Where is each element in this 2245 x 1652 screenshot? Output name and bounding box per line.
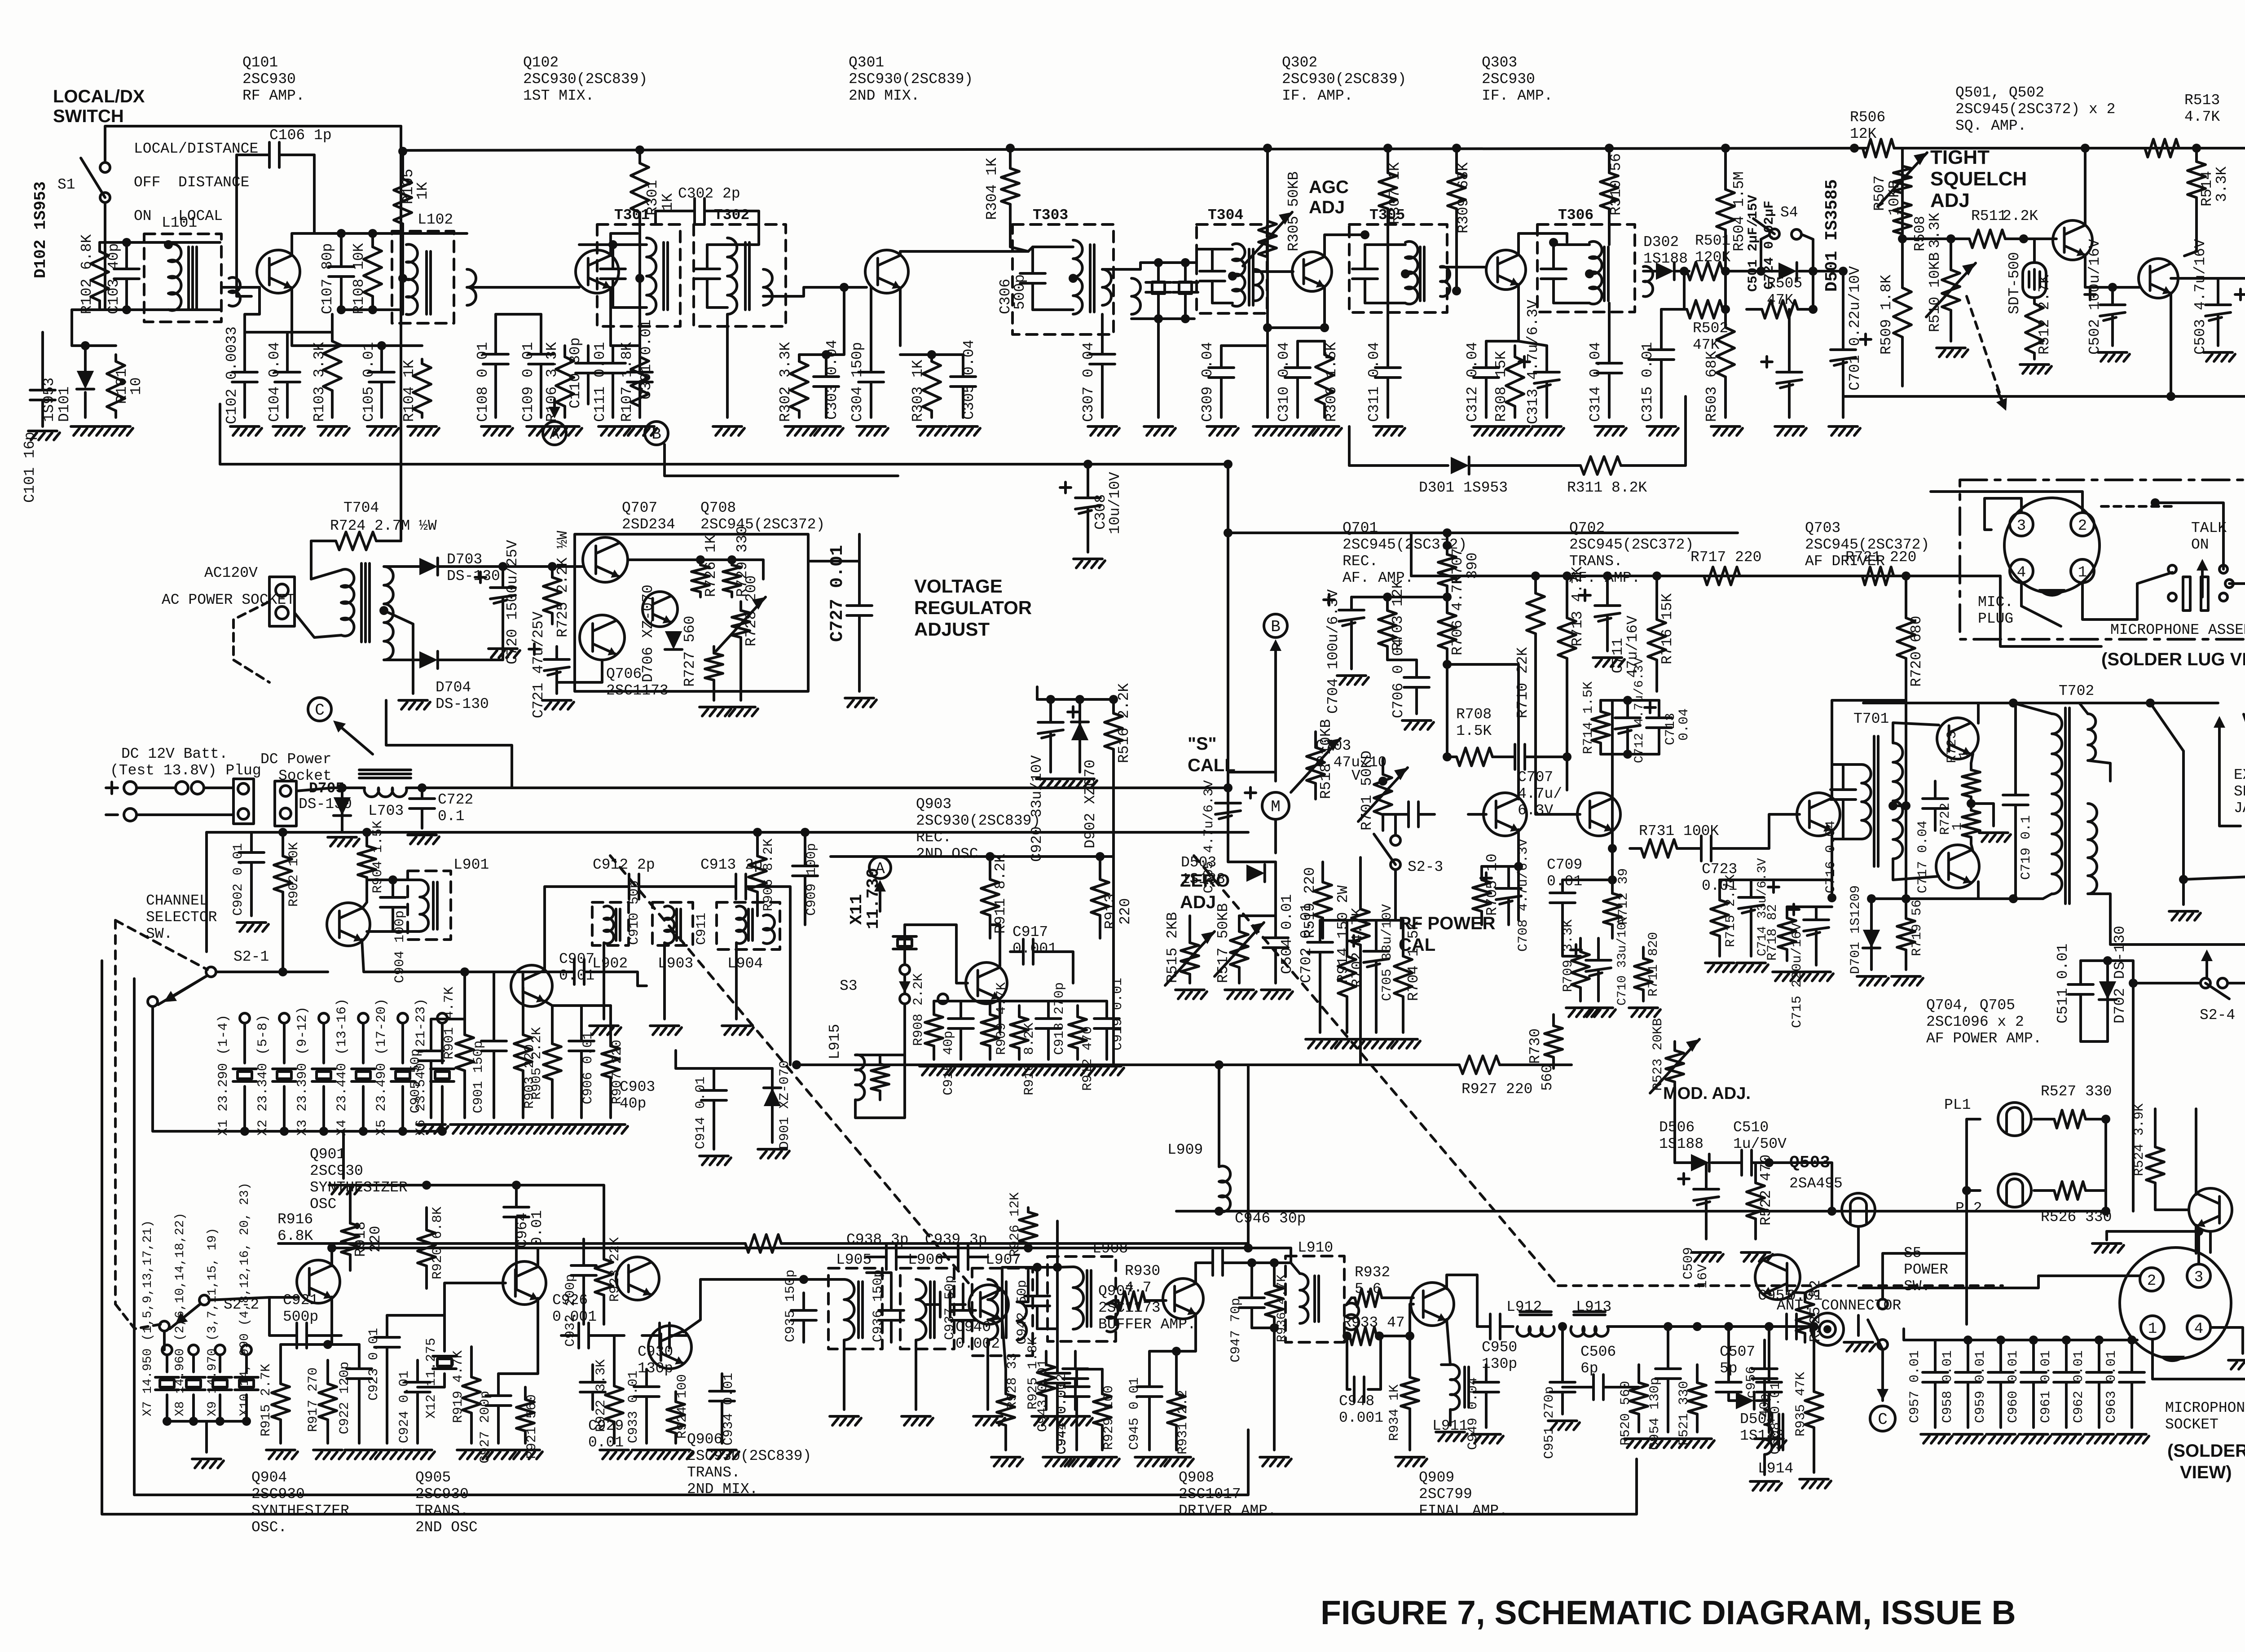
resistor R922 (613, 1365, 616, 1386)
wire T304 bottom (1212, 302, 1233, 304)
capacitor C507 (1727, 1327, 1730, 1382)
junction l912 l913 (1558, 1322, 1567, 1331)
svg-text:0.001: 0.001 (1339, 1410, 1383, 1426)
wire q904 c up (330, 1248, 333, 1266)
ground L905 (830, 1415, 858, 1418)
resistor R930 (1114, 1299, 1118, 1302)
svg-text:R918: R918 (352, 1221, 369, 1257)
svg-text:D302: D302 (1643, 234, 1679, 250)
ground R718 (1773, 971, 1801, 973)
svg-text:2SC930(2SC839): 2SC930(2SC839) (687, 1448, 811, 1464)
wire c505 bot (1228, 844, 1276, 862)
ground R935 (1800, 1478, 1828, 1481)
capacitor C710 (1597, 938, 1600, 960)
wire c917 right (1051, 952, 1073, 983)
svg-text:2ND OSC: 2ND OSC (415, 1519, 478, 1536)
transistor Q901 (327, 903, 370, 946)
svg-text:C917: C917 (1012, 924, 1048, 940)
svg-text:C716 0.04: C716 0.04 (1823, 821, 1839, 893)
capacitor C510 (1729, 1161, 1742, 1164)
wire mod adj col (1673, 1091, 1676, 1163)
svg-text:R509 1.8K: R509 1.8K (1878, 275, 1895, 355)
wire top rail drop to bus (400, 126, 402, 151)
wire r914 bot (1359, 961, 1362, 1065)
svg-text:2.2K: 2.2K (2003, 208, 2038, 224)
svg-text:R511: R511 (1971, 208, 2007, 224)
resistor R923 (603, 1230, 605, 1259)
diode D705 (334, 797, 351, 816)
ground D705 (328, 836, 357, 839)
svg-text:R714 1.5K: R714 1.5K (1581, 681, 1596, 754)
wire synth left drop (205, 832, 208, 952)
svg-text:C951 270p: C951 270p (1542, 1386, 1557, 1459)
transformer T303 core (1089, 245, 1092, 312)
svg-text:C312 0.04: C312 0.04 (1464, 342, 1481, 422)
junction det d (1809, 267, 1818, 276)
wire t704 pri top (311, 570, 341, 579)
mic socket pin 1 (2141, 1316, 2164, 1339)
capacitor C303 (825, 355, 828, 377)
wire c914 row2 (674, 1050, 677, 1068)
svg-text:R934 1K: R934 1K (1387, 1384, 1402, 1441)
capacitor C915 (960, 1001, 962, 1019)
wire x11 leads (903, 925, 906, 963)
diode D101 (77, 371, 94, 389)
svg-text:C717 0.04: C717 0.04 (1915, 821, 1931, 893)
svg-text:ON: ON (2191, 536, 2209, 553)
diode D302 (1656, 263, 1674, 280)
ground C960 (2019, 1433, 2048, 1436)
svg-text:R502: R502 (1693, 320, 1728, 337)
diode D704 (419, 651, 438, 668)
svg-text:SELECTOR: SELECTOR (146, 909, 217, 926)
junction T306 tap (1585, 269, 1594, 278)
svg-text:R924 100: R924 100 (675, 1374, 690, 1439)
resistor R936 (1273, 1263, 1276, 1286)
wire squelch bottom row (1843, 395, 2245, 398)
inductor L901 core (432, 882, 435, 929)
transformer T704 primary (341, 569, 354, 636)
wire R309 down (1455, 233, 1458, 291)
junction f2 (1181, 258, 1190, 267)
junction R504 bus (1721, 144, 1730, 153)
svg-text:SQ. AMP.: SQ. AMP. (1955, 118, 2026, 134)
junction bot rail (2009, 894, 2018, 903)
transistor Q902 osc (966, 962, 1007, 1004)
transistor Q905 (503, 1261, 546, 1305)
svg-text:CAL: CAL (1399, 935, 1435, 955)
svg-text:Q909: Q909 (1419, 1469, 1454, 1486)
svg-text:R720 680: R720 680 (1908, 616, 1925, 687)
svg-text:T306: T306 (1558, 207, 1594, 224)
svg-text:C701 0.22u/10V: C701 0.22u/10V (1847, 266, 1863, 391)
resistor R508 (1901, 198, 1904, 202)
ground C914 (700, 1155, 728, 1157)
resistor R926 (1027, 1208, 1030, 1212)
wire Q303 emitter (1517, 285, 1520, 341)
wire c719 top (2014, 703, 2017, 772)
wire c712 row bot (1601, 753, 1659, 756)
wire Q502 emitter to row (2170, 391, 2172, 396)
svg-text:0.01: 0.01 (1547, 873, 1582, 890)
inductor L905 core (857, 1282, 860, 1338)
svg-text:SQUELCH: SQUELCH (1930, 168, 2027, 190)
wire tx long line2 (1028, 1247, 1248, 1249)
svg-text:S2-1: S2-1 (233, 949, 269, 965)
svg-text:C502 100u/16V: C502 100u/16V (2087, 239, 2103, 355)
wire d901 leads (771, 1068, 774, 1142)
wire T306 top (1554, 243, 1589, 246)
resistor R501 (1684, 270, 1687, 272)
wire tank link (660, 885, 714, 888)
wire r926 bot (1017, 1270, 1028, 1302)
node C left (308, 698, 331, 721)
wire LOCAL node (72, 344, 116, 347)
wire t704 sec bot (384, 659, 420, 661)
resistor R730 (1552, 1015, 1555, 1026)
wire s21 dash link (115, 920, 207, 970)
svg-text:C914 0.01: C914 0.01 (693, 1076, 709, 1149)
transistor Q302 (1292, 252, 1332, 291)
capacitor C904 (392, 880, 394, 897)
svg-text:C910 50p: C910 50p (627, 880, 642, 945)
wire Q101 emitter (291, 288, 293, 346)
junction lamp feed (1962, 1186, 1971, 1195)
capacitor C933 (645, 1369, 648, 1387)
junction r502 b (1721, 305, 1730, 314)
svg-text:130p: 130p (1482, 1356, 1517, 1372)
junction mid rail (422, 1181, 431, 1190)
wire comb rail (934, 1000, 1107, 1002)
junction T305 top (1360, 230, 1369, 239)
svg-text:EXT.: EXT. (2234, 767, 2245, 783)
svg-text:RF POWER: RF POWER (1399, 914, 1496, 933)
ground R711 (1629, 1006, 1658, 1009)
wire T306 through down (1608, 303, 1611, 332)
arrow talk (2201, 571, 2204, 597)
junction c954 (1664, 1322, 1673, 1331)
svg-text:IF. AMP.: IF. AMP. (1282, 88, 1353, 104)
capacitor C918 (1047, 1001, 1050, 1019)
AC power socket (269, 577, 295, 626)
wire s21 to q901 base (216, 971, 328, 973)
wire mic2 wire (1859, 1276, 2140, 1288)
junction c508 (1765, 1322, 1774, 1331)
transformer T701 core (1873, 736, 1875, 866)
svg-text:R929 100: R929 100 (1101, 1385, 1117, 1450)
junction bypass 1 (1963, 1336, 1972, 1344)
transistor Q907 (969, 1285, 1008, 1324)
resistor R522 (1754, 1163, 1757, 1183)
transformer T306 secondary (1643, 267, 1653, 297)
wire q703 emitter (1831, 830, 1833, 898)
fuse (176, 782, 188, 794)
wire mech link2 (1558, 1284, 2003, 1287)
resistor R108 (371, 233, 374, 247)
junction mic a (2151, 498, 2160, 507)
crystal X2 terminal (279, 1013, 289, 1023)
transformer T704 secondary (384, 567, 393, 660)
junction r902t (278, 828, 287, 837)
capacitor C934 (721, 1374, 723, 1391)
resistor R708 (1447, 756, 1457, 758)
ground C101 (28, 430, 57, 432)
wire c506 r520 (1625, 1386, 1639, 1388)
svg-text:C923 0.01: C923 0.01 (366, 1328, 382, 1401)
wire Q302 e row (1268, 326, 1325, 329)
wire C106 left leg (237, 155, 251, 296)
svg-text:R519 220: R519 220 (1302, 867, 1318, 938)
wire tx rail (797, 1063, 1455, 1066)
crystal X8 terminal (189, 1345, 198, 1355)
wire Q501 collector (2084, 148, 2087, 225)
svg-text:1: 1 (1950, 822, 1965, 830)
transistor Q906 sym (648, 1326, 691, 1369)
svg-text:10: 10 (128, 377, 145, 395)
crystal X9 (208, 1376, 232, 1379)
resistor R724 (311, 540, 336, 542)
wire c511 d702 bot (2081, 1040, 2108, 1043)
ground D901 (758, 1148, 787, 1151)
ground C105 (367, 425, 396, 428)
ground C945 (1135, 1456, 1164, 1459)
wire meter lamp (1805, 1226, 1858, 1293)
mic socket pin 2 (2140, 1268, 2163, 1291)
diode D702 (2099, 981, 2116, 1000)
resistor R909 (989, 1001, 991, 1015)
resistor R310 (1608, 148, 1611, 173)
wire det down2 (1724, 271, 1727, 309)
svg-text:0.01: 0.01 (588, 1434, 624, 1451)
wire X2 lead (283, 1023, 286, 1063)
svg-text:C501 2μF/15V: C501 2μF/15V (1746, 195, 1761, 292)
capacitor C951 (1561, 1327, 1564, 1382)
junction X10 (242, 1417, 251, 1426)
junction af feed (1224, 528, 1233, 537)
resistor R715 (1718, 880, 1721, 900)
wire T306 bot (1554, 302, 1589, 304)
wire d506 c510 (1712, 1161, 1729, 1164)
capacitor C721 (555, 646, 558, 659)
svg-text:C: C (1878, 1410, 1888, 1429)
pilot lamp PL2 (1998, 1174, 2031, 1207)
wire c942 bot (1037, 1327, 1057, 1330)
switch S2-4 (2201, 978, 2210, 988)
resistor R527 (2034, 1118, 2054, 1120)
mic socket pin 4 (2187, 1316, 2210, 1339)
capacitor C704 (1350, 597, 1353, 610)
ground R107 (625, 425, 654, 428)
wire R105 to L102 (401, 245, 404, 314)
svg-text:V: V (1351, 768, 1360, 784)
ground C906 (567, 1123, 596, 1126)
microphone plug circle (2004, 498, 2100, 593)
wire agc feed (1266, 148, 1269, 206)
svg-text:2SC930: 2SC930 (415, 1486, 469, 1503)
svg-text:10u/10V: 10u/10V (1107, 472, 1123, 534)
ground R936 (1260, 1456, 1289, 1459)
resistor R101 (114, 355, 117, 361)
resistor R102 (98, 242, 101, 251)
ground R905 (538, 1123, 567, 1126)
svg-text:C934 0.01: C934 0.01 (721, 1373, 736, 1445)
svg-text:DS-130: DS-130 (447, 568, 500, 584)
crystal X10 terminal (242, 1345, 251, 1355)
switch S4 (1770, 229, 1779, 239)
wire C107 R108 bottom (341, 308, 403, 311)
wire lamps feed (1967, 1119, 1980, 1191)
wire mic4 wire (2210, 1327, 2243, 1353)
inductor L102 secondary (467, 269, 476, 305)
svg-text:C911: C911 (694, 913, 709, 945)
ground R909 (976, 1065, 1004, 1068)
svg-text:1.5K: 1.5K (1456, 723, 1492, 739)
svg-text:3: 3 (2194, 1269, 2203, 1286)
wire q503 c (2195, 1225, 2197, 1253)
inductor L906 core (929, 1282, 932, 1338)
wire T302 sec to Q301 (763, 287, 867, 296)
inductor L101 secondary loop (229, 277, 240, 306)
wire c903 to q902 (611, 972, 647, 986)
junction bypass 3 (2029, 1336, 2038, 1344)
wire Q301 emitter (899, 288, 902, 346)
svg-text:SDT-500: SDT-500 (2006, 252, 2023, 314)
resistor R935 (1813, 1347, 1815, 1392)
junction det b (1721, 267, 1730, 276)
wire comb 109 row (496, 313, 541, 316)
svg-text:R504 1.5M: R504 1.5M (1731, 171, 1748, 251)
ground R512 (2020, 363, 2049, 366)
junction T305 tap (1401, 269, 1410, 278)
svg-text:1: 1 (2078, 564, 2087, 581)
svg-text:ADJUST: ADJUST (914, 619, 990, 640)
svg-text:R102 6.8K: R102 6.8K (79, 234, 95, 314)
svg-text:2SC930: 2SC930 (251, 1486, 305, 1503)
resistor R302 (798, 355, 801, 361)
capacitor C701 (1842, 271, 1844, 350)
svg-text:6p: 6p (1580, 1360, 1598, 1377)
ground C109 (527, 425, 555, 428)
inductor L101 core (187, 247, 190, 310)
wire tank link2 (772, 887, 790, 925)
wire d501 down (1812, 271, 1814, 309)
wire l905 gnd (843, 1340, 845, 1410)
capacitor C941 (1074, 1351, 1077, 1369)
svg-text:C: C (315, 701, 325, 720)
wire X3 lead2 (322, 1086, 325, 1131)
wire ct gnd (384, 611, 413, 694)
junction e703 (1827, 893, 1836, 902)
svg-text:SWITCH: SWITCH (53, 106, 124, 126)
resistor R303 (930, 355, 933, 361)
svg-text:L910: L910 (1298, 1239, 1333, 1256)
arrow S2-1 (174, 975, 207, 996)
svg-text:M: M (1271, 798, 1281, 816)
wire batt minus (136, 813, 233, 816)
wire Q502 base (2113, 286, 2140, 289)
potentiometer R515 (1189, 934, 1191, 943)
capacitor C723 (1688, 847, 1701, 850)
wire D301 row (1349, 464, 1448, 467)
wire coupling row (314, 232, 467, 235)
ground R302 (785, 425, 814, 428)
resistor R714 (1599, 700, 1602, 712)
ground C307 (1088, 425, 1117, 428)
junction R307 bus (1383, 144, 1392, 153)
svg-text:SPEAKER: SPEAKER (2234, 783, 2245, 800)
mic plug keyway (2038, 589, 2065, 597)
wire q902 collector (990, 925, 1000, 966)
svg-text:X7 14.950 (1,5,9,13,17,21): X7 14.950 (1,5,9,13,17,21) (141, 1220, 155, 1416)
svg-text:R711 820: R711 820 (1646, 932, 1661, 997)
junction T301 tap (635, 274, 644, 283)
svg-text:R507: R507 (1871, 176, 1888, 211)
transformer T701 primary (1862, 764, 1871, 839)
junction X3 (319, 1127, 328, 1136)
junction ct (379, 606, 388, 615)
svg-text:R721 220: R721 220 (1845, 549, 1916, 566)
resistor R520 (1638, 1365, 1640, 1383)
capacitor C944 (1075, 1369, 1078, 1387)
microphone assembly box (1960, 480, 2245, 639)
svg-text:AC POWER SOCKET: AC POWER SOCKET (162, 592, 295, 608)
svg-text:6.8K: 6.8K (277, 1228, 313, 1244)
resistor R913 (1099, 857, 1101, 879)
svg-text:C503 4.7u/16V: C503 4.7u/16V (2192, 239, 2209, 355)
wire d702 vert (2132, 983, 2135, 1211)
diode D506 (1691, 1154, 1709, 1171)
wire q903 rail (831, 855, 1114, 858)
ground R525 (1844, 1341, 1873, 1344)
wire filter top (1102, 263, 1185, 269)
junction r926 top (1024, 1243, 1033, 1252)
ground D902 (1065, 778, 1094, 780)
svg-text:0.001: 0.001 (552, 1309, 597, 1325)
wire Q303 e row (1486, 341, 1547, 346)
wire T304 sec to Q302 base (1255, 270, 1293, 273)
junction r707 feed (1443, 528, 1452, 537)
svg-text:T301: T301 (614, 207, 650, 224)
resistor R103 (331, 314, 334, 341)
junction r708 (1443, 752, 1452, 761)
wire X7 lead2 (166, 1395, 168, 1421)
capacitor C901 (493, 988, 495, 1041)
resistor R524 (2154, 1136, 2157, 1147)
wire c506 wire (1563, 1386, 1576, 1388)
svg-text:12K: 12K (1850, 126, 1877, 142)
ground speaker (2169, 910, 2198, 913)
wire r503 gnd (1724, 395, 1727, 417)
wire s22 to q904 (209, 1297, 299, 1300)
wire q702 base (1540, 813, 1580, 816)
wire talk contact up (2155, 503, 2223, 569)
wire Q302 collector (1325, 235, 1365, 256)
junction c712t (1623, 696, 1632, 705)
wire d702 leads (2106, 961, 2109, 1041)
svg-text:Q101: Q101 (242, 54, 278, 71)
wire c948 loop2 (1368, 1336, 1381, 1389)
resistor R727 (713, 646, 715, 653)
svg-text:0.001: 0.001 (1012, 940, 1057, 957)
junction f2b (1181, 314, 1190, 323)
capacitor C935 (802, 1293, 805, 1310)
svg-text:ANT. CONNECTOR: ANT. CONNECTOR (1777, 1297, 1901, 1314)
wire mic row (2107, 1230, 2199, 1233)
svg-text:C709: C709 (1547, 857, 1582, 873)
ground C919 (1092, 1065, 1121, 1068)
ground C901 (480, 1123, 508, 1126)
resistor R709 (1579, 938, 1582, 952)
